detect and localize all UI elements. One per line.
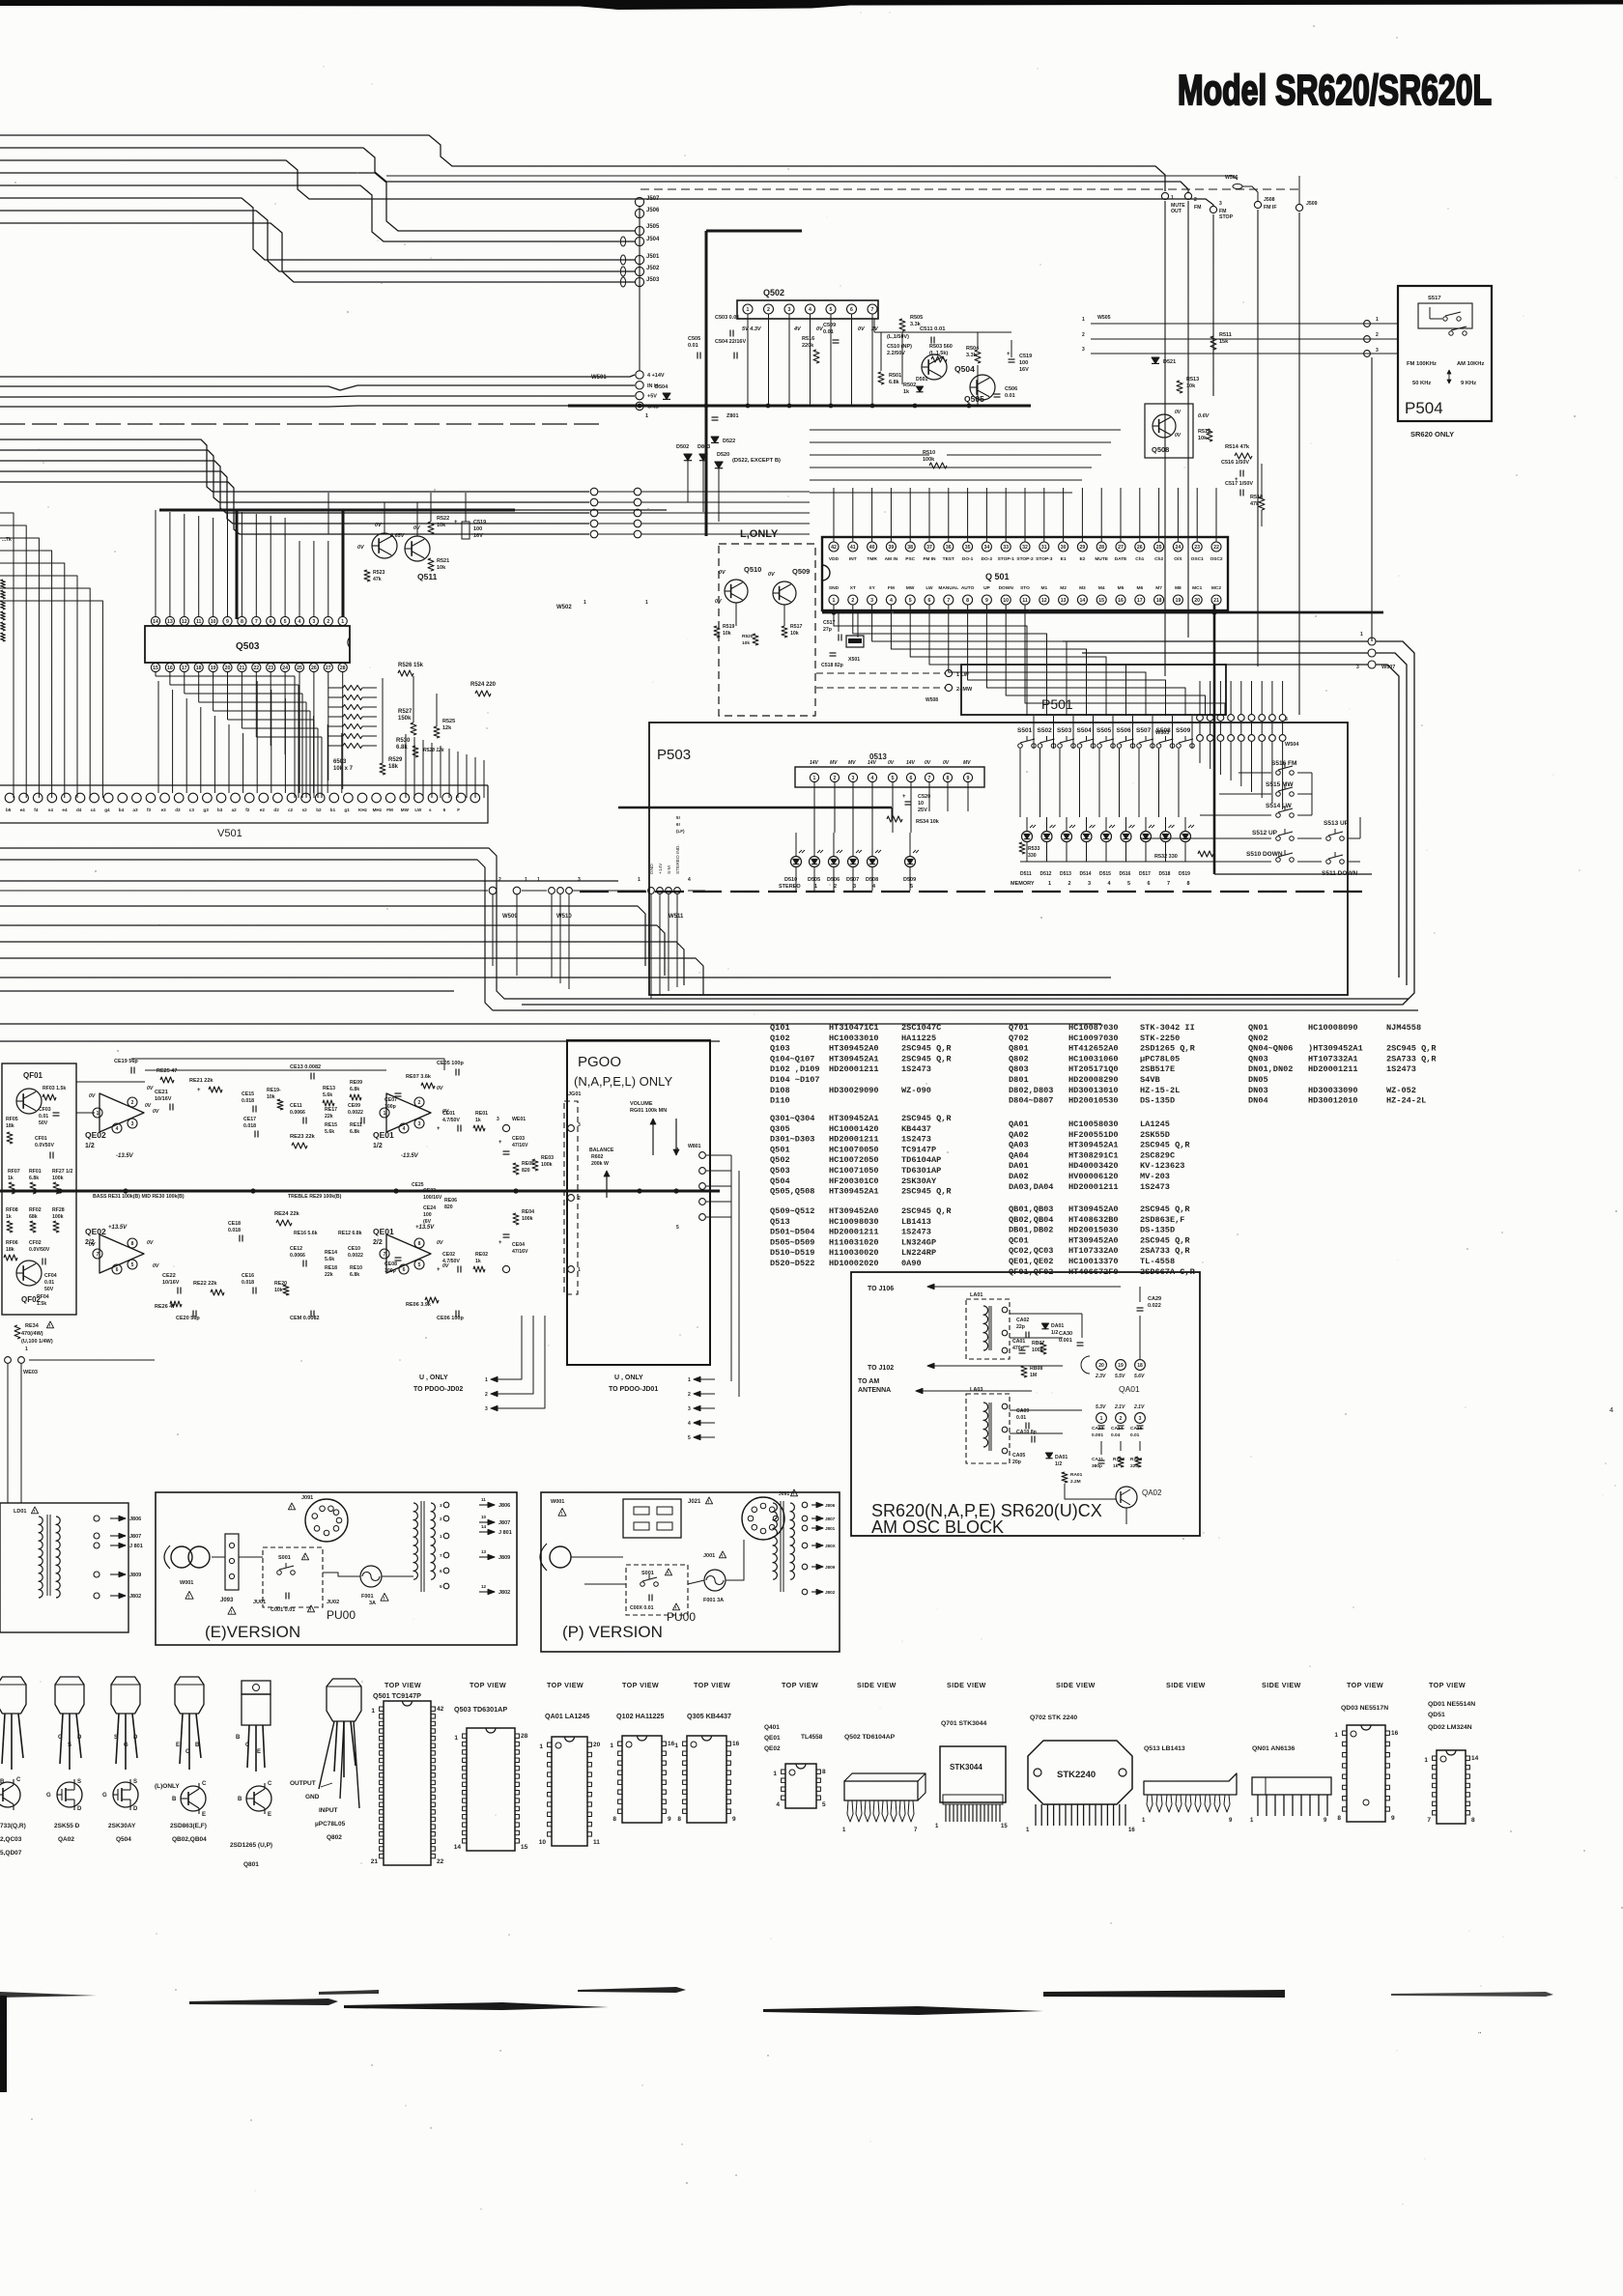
wire to J502 — [0, 211, 635, 271]
AC plug P — [540, 1544, 547, 1571]
vertical drops Q503 to V501 — [157, 681, 159, 793]
connector J501 — [635, 255, 643, 264]
fm wires horizontals — [810, 429, 1121, 431]
transistor Q508 — [1145, 404, 1193, 458]
opamp QE01 1/2 — [386, 1093, 431, 1132]
diode D502 — [684, 454, 692, 461]
wire to J503 — [0, 223, 635, 282]
left nested wires — [0, 513, 14, 798]
transistor Q511a — [372, 533, 397, 558]
right loop wires W507 — [1368, 638, 1376, 645]
QA01 pins bottom — [1096, 1413, 1107, 1424]
thick wire over Q503 — [159, 509, 515, 512]
transistor can 2SK55D — [55, 1677, 84, 1714]
audio frame lines — [0, 1040, 720, 1042]
LED D506 — [829, 857, 840, 867]
transistor QF02 — [16, 1261, 42, 1286]
noise filter J021 — [623, 1499, 681, 1538]
horizontal links under Q503 — [156, 675, 295, 677]
wires W503 staircase left — [1012, 680, 1200, 682]
IC Q503 — [145, 626, 350, 663]
thick vertical to Q503 pin8 — [236, 510, 239, 619]
dashed long wire — [0, 423, 599, 425]
opamp QE02 1/2 — [100, 1093, 144, 1132]
E version box — [156, 1492, 517, 1645]
thick wire 0513 — [618, 807, 892, 809]
transistor can 1 — [0, 1677, 26, 1714]
V501 box frame — [0, 784, 488, 786]
W509 connector — [489, 887, 497, 894]
PGOO box — [567, 1040, 710, 1365]
transistor Q505 — [970, 375, 995, 400]
round connector J091 — [305, 1499, 348, 1542]
opamp QE02 2/2 — [100, 1234, 144, 1273]
transistor Q504 — [922, 354, 947, 380]
vertical to switch loop — [1371, 357, 1373, 641]
pin 2 FM — [1184, 192, 1191, 199]
diode DA01b — [1045, 1453, 1052, 1459]
switch row S501-S509 — [1018, 744, 1023, 749]
left transformer box LD01 — [0, 1503, 128, 1632]
wires right of Q503 — [413, 676, 414, 723]
switch S001 P — [626, 1565, 688, 1615]
secondary arrows E — [479, 1504, 495, 1506]
bottom scan smudges — [0, 1992, 97, 1998]
thick bus under Q501 — [822, 611, 1383, 614]
am osc wires — [1004, 1287, 1006, 1306]
round connector J091 P — [742, 1497, 784, 1540]
W510 connector — [549, 888, 555, 894]
transistor QF01 — [16, 1089, 42, 1114]
diode DA01a — [1041, 1323, 1048, 1329]
coil LA03 dashed — [966, 1394, 1010, 1463]
wires diodes down — [687, 461, 689, 502]
wires tuner cluster — [880, 332, 882, 371]
resistor ladder 6503 10k x7 — [343, 685, 362, 690]
pin MW — [945, 684, 952, 691]
W511 connector — [648, 888, 655, 894]
opamp QE01 2/2 — [386, 1234, 431, 1273]
wire steps down left — [498, 856, 500, 991]
IC Q501 — [822, 537, 1228, 610]
JG01 connector dashed — [564, 1101, 578, 1294]
long verticals from FM pins — [1164, 201, 1166, 676]
thick vertical trunk — [705, 231, 708, 536]
lower left wires — [0, 439, 589, 492]
LED D507 — [848, 857, 859, 867]
diode D503 — [699, 454, 707, 461]
LED D508 — [868, 857, 878, 867]
connector J507 — [635, 197, 643, 206]
left edge resistors — [1, 580, 6, 588]
band switches — [1276, 771, 1281, 776]
wire to J505 — [0, 173, 635, 231]
transistor Q509 — [773, 581, 796, 605]
bus wires below V501 — [0, 848, 1409, 999]
switch wires — [1297, 772, 1312, 774]
QA01 pins top — [1096, 1360, 1107, 1371]
transistor Q511b — [405, 536, 430, 561]
wires from Q502 pins down — [747, 314, 749, 406]
uPC78L05 can — [327, 1679, 361, 1721]
wires below Q503 — [155, 672, 157, 676]
transformer P — [773, 1503, 777, 1579]
pin 1 MUTE OUT — [1161, 192, 1168, 199]
P501 box — [961, 665, 1226, 715]
verticals below Q501 staircase — [834, 605, 1027, 716]
memory LED row D511-D519 — [1022, 832, 1033, 842]
dashed block border top — [641, 188, 1299, 190]
dashed thick mid line — [580, 891, 1370, 893]
wires above Q503 — [155, 510, 157, 616]
left margin black bar — [0, 1996, 7, 2092]
wires into W501 — [0, 375, 635, 377]
P version box — [541, 1492, 840, 1652]
QF01 QF02 box — [2, 1063, 76, 1315]
specks — [1037, 68, 1038, 69]
transistor Q510 — [725, 580, 748, 603]
wires q511 — [327, 493, 329, 534]
LED D505 — [810, 857, 820, 867]
memory bottom bus — [1020, 861, 1219, 863]
diode D522 — [711, 437, 719, 442]
P504 box — [1398, 286, 1492, 421]
transformer E — [413, 1503, 417, 1579]
diode D521 — [1152, 357, 1159, 363]
pin LW — [945, 669, 952, 676]
AM OSC BLOCK box — [851, 1272, 1200, 1536]
connector V501 row — [5, 793, 14, 803]
connector J505 — [635, 226, 643, 235]
coil LA01 dashed — [966, 1299, 1010, 1359]
wires down to arrows — [512, 1316, 522, 1379]
connector J093 — [225, 1534, 239, 1590]
connector J503 — [635, 277, 643, 286]
transistor can 2SK30AY — [111, 1677, 140, 1714]
left stair wires to switches — [1239, 772, 1271, 774]
AC plug W001 — [171, 1546, 192, 1568]
scan top edge bar — [0, 0, 1623, 10]
LED D510 STEREO — [791, 857, 802, 867]
transistor can 2SD863 — [175, 1677, 204, 1714]
wire to J501 — [0, 198, 635, 260]
wire to J504 — [0, 185, 635, 241]
audio hwires — [76, 1081, 145, 1083]
thick power bus — [568, 405, 1031, 408]
transistor QA02 — [1116, 1487, 1137, 1508]
P503 box — [649, 723, 1348, 995]
thick audio rail — [0, 1190, 720, 1193]
diode D520 — [715, 462, 723, 468]
MC2 thick vertical — [1213, 605, 1216, 874]
LED wires down — [795, 867, 797, 891]
verticals V501 links — [405, 734, 407, 798]
connector J506 — [635, 209, 643, 217]
pin J509 — [1296, 204, 1302, 211]
pin 3 FM STOP — [1210, 206, 1216, 213]
pin J508 FM IF — [1254, 201, 1261, 208]
TO220 2SD1265 — [242, 1681, 270, 1694]
loop verticals bottom — [1188, 977, 1399, 978]
thick vertical to Q503 pin1 — [342, 510, 345, 616]
E box wires — [212, 1556, 225, 1558]
connector J502 — [635, 267, 643, 275]
wire right to P504 — [1091, 323, 1398, 325]
WE03 connector — [5, 1357, 12, 1364]
wire bundle top left — [0, 135, 1165, 191]
diode D501 — [916, 386, 923, 392]
LED D509 — [905, 857, 916, 867]
fuse F001 — [360, 1566, 382, 1587]
dashed L-only box — [719, 544, 815, 716]
diode D504 — [663, 393, 670, 399]
secondary arrows P — [802, 1502, 808, 1508]
vertical bus J column — [639, 206, 641, 371]
switch S001 box — [263, 1547, 323, 1607]
inner loop rect — [1266, 641, 1368, 681]
connector J504 — [635, 237, 643, 245]
P box wires — [571, 1556, 623, 1558]
